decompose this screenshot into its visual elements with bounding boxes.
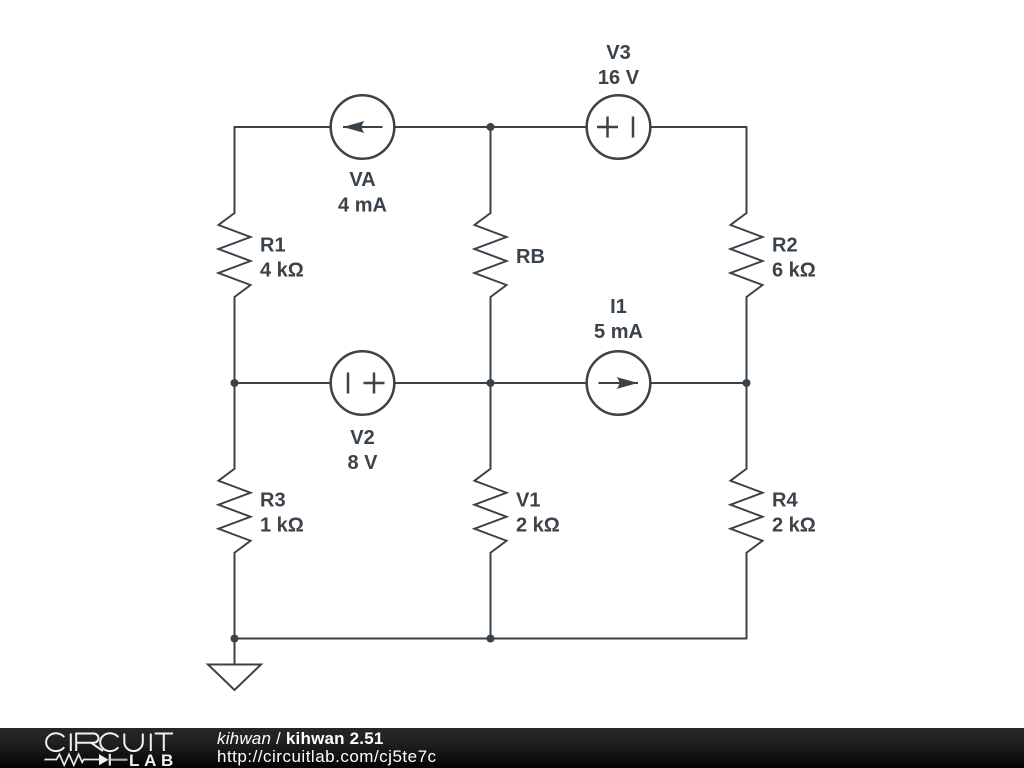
logo diode cathode bar	[109, 754, 111, 766]
resistor RB	[475, 213, 507, 297]
resistor R4	[731, 469, 763, 553]
svg-text:2 kΩ: 2 kΩ	[772, 515, 816, 537]
node mid-left	[231, 379, 239, 387]
logo letter I	[70, 734, 72, 752]
wire middle horizontal	[235, 382, 747, 384]
voltage source V2 minus terminal bar	[347, 373, 350, 394]
logo letter C	[100, 733, 118, 751]
svg-text:V3: V3	[606, 42, 630, 64]
CircuitLab logo	[0, 728, 190, 768]
logo wire after diode	[111, 759, 128, 761]
svg-text:6 kΩ: 6 kΩ	[772, 260, 816, 282]
ground	[208, 665, 261, 691]
node top-middle	[487, 123, 495, 131]
svg-text:RB: RB	[516, 246, 545, 268]
logo letter R	[76, 734, 103, 752]
node bottom-middle	[487, 635, 495, 643]
svg-text:4 mA: 4 mA	[338, 195, 387, 217]
svg-text:2 kΩ: 2 kΩ	[516, 515, 560, 537]
wire middle rail middle segment	[490, 297, 492, 469]
svg-text:LAB: LAB	[129, 751, 178, 768]
wire middle rail bottom segment	[490, 553, 492, 639]
svg-text:R4: R4	[772, 490, 798, 512]
node bottom-left	[231, 635, 239, 643]
svg-text:4 kΩ: 4 kΩ	[260, 260, 304, 282]
voltage source V3 body circle	[587, 95, 651, 159]
voltage source V2 plus sign vertical bar	[373, 373, 376, 394]
current source I1 arrow shaft	[599, 382, 639, 384]
wire middle rail top segment	[490, 127, 492, 213]
voltage source V3	[587, 95, 651, 159]
voltage source V2 body circle	[331, 351, 395, 415]
wire right rail bottom segment	[746, 553, 748, 639]
voltage source V2	[331, 351, 395, 415]
logo letter T	[155, 734, 173, 752]
node mid-middle	[487, 379, 495, 387]
wire right rail middle segment	[746, 297, 748, 469]
wire right rail top segment	[746, 127, 748, 213]
logo letter U	[124, 734, 143, 752]
current source VA arrowhead (pointing left)	[343, 121, 365, 133]
svg-text:VA: VA	[349, 169, 375, 191]
wire ground stub	[234, 639, 236, 665]
current source VA arrow shaft	[343, 126, 383, 128]
node mid-right	[743, 379, 751, 387]
voltage source V3 plus sign horizontal bar	[597, 126, 618, 129]
svg-text:8 V: 8 V	[347, 452, 378, 474]
svg-text:V1: V1	[516, 490, 540, 512]
footer title	[217, 729, 384, 749]
wire left rail bottom segment	[234, 553, 236, 639]
current source I1	[587, 351, 651, 415]
logo letter C	[46, 733, 64, 751]
svg-text:V2: V2	[350, 427, 374, 449]
voltage source V2 plus sign horizontal bar	[364, 382, 385, 385]
svg-text:R2: R2	[772, 235, 798, 257]
svg-text:1 kΩ: 1 kΩ	[260, 515, 304, 537]
current source I1 body circle	[587, 351, 651, 415]
footer url	[217, 747, 437, 767]
wire left rail middle segment	[234, 297, 236, 469]
wire top horizontal	[235, 126, 747, 128]
wire bottom horizontal	[235, 638, 747, 640]
current source I1 arrowhead (pointing right)	[617, 377, 639, 389]
svg-text:I1: I1	[610, 296, 627, 318]
svg-text:R1: R1	[260, 235, 286, 257]
resistor R3	[219, 469, 251, 553]
logo resistor zigzag	[44, 754, 99, 765]
svg-text:5 mA: 5 mA	[594, 321, 643, 343]
resistor R2	[731, 213, 763, 297]
logo diode triangle	[99, 754, 109, 765]
voltage source V3 minus terminal bar	[632, 117, 635, 138]
current source VA body circle	[331, 95, 395, 159]
wire left rail top segment	[234, 127, 236, 213]
svg-text:R3: R3	[260, 490, 286, 512]
svg-text:16 V: 16 V	[598, 67, 640, 89]
logo letter I	[150, 734, 152, 752]
resistor R1	[219, 213, 251, 297]
current source VA	[331, 95, 395, 159]
resistor V1	[475, 469, 507, 553]
voltage source V3 plus sign vertical bar	[606, 117, 609, 138]
